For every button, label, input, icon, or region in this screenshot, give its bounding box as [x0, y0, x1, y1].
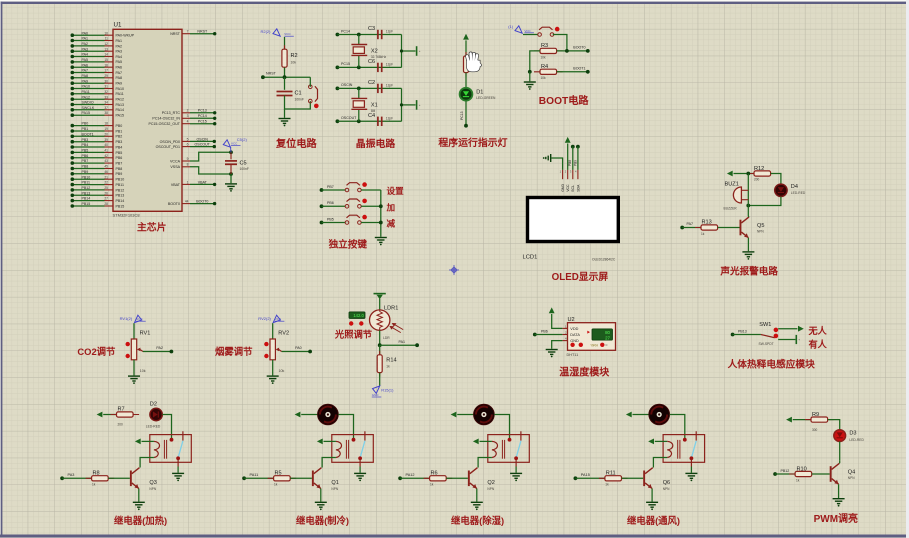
capacitor C4: [378, 117, 382, 126]
wire C1 to button: [285, 96, 311, 110]
relay contact NO stub: [695, 431, 697, 440]
svg-text:PB13: PB13: [738, 329, 747, 333]
relay armature (cyan): [691, 441, 696, 458]
pin BOOT0 (pin 44): [168, 200, 190, 207]
svg-text:SCL: SCL: [571, 185, 575, 192]
svg-text:PB9: PB9: [116, 172, 123, 176]
wire emitter to ground: [747, 238, 749, 252]
svg-text:PA10: PA10: [116, 87, 125, 91]
wire to common: [361, 189, 381, 191]
node OSCIN: [336, 87, 340, 91]
pin PA1 (pin 11): [71, 37, 123, 43]
wire to ground: [230, 174, 232, 183]
power net name: [231, 142, 241, 146]
node PB6: [320, 204, 324, 208]
junction: [379, 204, 383, 208]
svg-text:PA4: PA4: [116, 55, 123, 59]
svg-text:PA3: PA3: [116, 50, 123, 54]
pin VCCA (pin 9): [170, 157, 190, 164]
junction: [400, 49, 403, 52]
svg-text:25: 25: [104, 186, 108, 190]
svg-text:PA5: PA5: [116, 60, 123, 64]
OLED screen LCD1: [528, 198, 619, 242]
svg-text:PB5: PB5: [116, 151, 123, 155]
pin VDD (pin 1): [562, 327, 567, 329]
svg-text:PA11: PA11: [250, 473, 259, 477]
svg-text:1k: 1k: [92, 483, 96, 487]
svg-text:40: 40: [104, 143, 108, 147]
relay common contact: [352, 438, 356, 442]
pin PA10 (pin 31): [71, 85, 125, 91]
pin NRST (pin 7): [170, 30, 190, 37]
wire PC13: [190, 112, 215, 114]
svg-text:PA1: PA1: [116, 39, 123, 43]
LDR value display: [349, 312, 365, 319]
buzzer BUZ1: [733, 187, 748, 203]
wire coil top: [480, 440, 492, 442]
svg-text:继电器(制冷): 继电器(制冷): [296, 515, 349, 526]
LED D4: [775, 184, 787, 196]
svg-text:人体热释电感应模块: 人体热释电感应模块: [728, 357, 815, 370]
wire stub: [476, 467, 479, 469]
ground (emitter): [646, 502, 658, 507]
node PA15: [574, 476, 578, 480]
svg-text:PB0: PB0: [116, 124, 123, 128]
junction: [378, 343, 382, 347]
resistor R8: [86, 476, 115, 481]
svg-text:+: +: [419, 49, 421, 53]
svg-text:设置: 设置: [387, 185, 405, 196]
wire PB7: [322, 189, 346, 191]
svg-text:VCC: VCC: [566, 184, 570, 192]
node C5 bottom: [229, 172, 233, 176]
svg-text:37: 37: [104, 106, 108, 110]
wire BOOT1: [557, 71, 588, 73]
svg-text:PB7: PB7: [82, 159, 89, 163]
wire PA1: [380, 344, 417, 346]
svg-text:8M: 8M: [371, 109, 376, 113]
power net name: [136, 317, 146, 321]
wire to ground: [133, 360, 135, 376]
svg-text:OSCOUT: OSCOUT: [341, 116, 357, 120]
pin PA11 (pin 32): [71, 90, 124, 96]
svg-text:80: 80: [605, 330, 610, 335]
wire emitter to ground: [138, 489, 140, 502]
wire LDR to node: [379, 330, 381, 345]
svg-text:LED-RED: LED-RED: [791, 191, 806, 195]
wire PA3: [62, 477, 92, 479]
svg-text:STM32F103C8: STM32F103C8: [113, 213, 141, 218]
relay coil: [492, 441, 498, 457]
svg-text:(1): (1): [508, 24, 514, 29]
svg-text:3: 3: [187, 114, 189, 118]
svg-text:38: 38: [104, 111, 108, 115]
svg-text:BOOT1: BOOT1: [573, 67, 585, 71]
svg-text:PA13: PA13: [116, 103, 125, 107]
power arrow (OLED VCC): [565, 137, 571, 143]
svg-text:PA1: PA1: [399, 340, 406, 344]
svg-text:PB12: PB12: [781, 469, 790, 473]
wire OSCOUT: [337, 120, 401, 122]
svg-text:200: 200: [118, 423, 124, 427]
stub: [345, 205, 349, 207]
svg-text:VCC: VCC: [524, 29, 531, 33]
svg-text:Q6: Q6: [663, 480, 670, 486]
wire to ground: [515, 467, 517, 473]
svg-text:PA7: PA7: [82, 69, 89, 73]
svg-text:Q1: Q1: [331, 480, 338, 486]
svg-text:PA0: PA0: [295, 346, 302, 350]
adjust button +: [349, 321, 353, 325]
wire PB13: [733, 334, 761, 336]
resistor R10: [789, 471, 818, 476]
svg-text:PB5: PB5: [82, 149, 89, 153]
wire VCCA to C5 node: [190, 152, 231, 161]
pin PA3 (pin 13): [71, 47, 123, 53]
pin OSCOUT_PD1 (pin 6): [156, 143, 190, 150]
power arrow (no person): [798, 326, 804, 332]
svg-text:5: 5: [187, 137, 189, 141]
wire OSCIN: [337, 87, 401, 89]
power arrow (coil supply): [317, 439, 323, 445]
svg-text:PA15: PA15: [82, 111, 91, 115]
svg-text:R9: R9: [812, 412, 819, 418]
svg-text:22: 22: [104, 181, 108, 185]
wire to relay common: [338, 415, 353, 440]
svg-text:R10: R10: [797, 466, 807, 472]
svg-text:D1: D1: [476, 90, 483, 96]
svg-text:42: 42: [104, 154, 108, 158]
svg-text:PA5: PA5: [82, 58, 89, 62]
wire BOOT0: [190, 203, 215, 205]
pin PA15 (pin 38): [71, 111, 125, 117]
ground (RV1): [128, 376, 140, 381]
svg-text:1k: 1k: [796, 478, 800, 482]
svg-text:LED-RED: LED-RED: [146, 424, 161, 428]
svg-text:29: 29: [104, 74, 108, 78]
wire emitter to ground: [838, 484, 840, 498]
wire PA11: [244, 477, 274, 479]
resistor R1: [464, 52, 469, 77]
node PA0: [308, 350, 312, 354]
wire to base: [812, 473, 830, 475]
node PB5: [320, 221, 324, 225]
power terminal RV2(2): [273, 315, 280, 322]
node SDA: [576, 145, 580, 149]
potentiometer RV1: [131, 339, 143, 360]
wire R14 to terminal: [379, 373, 381, 386]
svg-text:D3: D3: [849, 431, 856, 437]
svg-text:PB12: PB12: [116, 188, 125, 192]
svg-text:R12: R12: [754, 166, 764, 172]
svg-text:BOOT0: BOOT0: [573, 46, 585, 50]
svg-text:PC15: PC15: [198, 120, 207, 124]
svg-text:PB9: PB9: [82, 170, 89, 174]
svg-text:NPN: NPN: [757, 230, 764, 234]
svg-text:PA12: PA12: [82, 95, 91, 99]
wire wedge to node: [230, 147, 233, 152]
wire coil bottom to collector: [140, 458, 154, 468]
ground (RV2): [267, 376, 279, 381]
svg-text:C3: C3: [368, 26, 375, 32]
wire to ground: [272, 360, 274, 376]
pin PC15-OSC32_OUT (pin 4): [148, 120, 190, 127]
power terminal (bar): [374, 293, 386, 295]
junction: [379, 221, 383, 225]
relay armature (cyan): [360, 441, 365, 458]
svg-text:X1: X1: [371, 102, 378, 108]
wire right rail: [401, 35, 403, 68]
svg-text:PC15: PC15: [341, 62, 350, 66]
stub: [345, 222, 349, 224]
svg-text:45: 45: [104, 165, 108, 169]
wire to R14: [379, 345, 381, 354]
svg-text:OSCIN: OSCIN: [341, 83, 353, 87]
power arrow (to VCC): [626, 412, 632, 418]
wire to ground: [284, 109, 286, 118]
power terminal R2(2): [273, 29, 280, 36]
svg-text:PB3: PB3: [116, 140, 123, 144]
wire to terminal: [778, 339, 795, 341]
capacitor C5: [225, 161, 237, 164]
svg-text:PB3: PB3: [82, 138, 89, 142]
svg-text:LCD1: LCD1: [523, 255, 538, 261]
LED D1 (green): [460, 88, 473, 101]
svg-text:BOOT电路: BOOT电路: [539, 94, 590, 107]
ground (buttons): [375, 238, 387, 243]
pin OSCIN_PD0 (pin 5): [160, 137, 190, 144]
resistor R12: [748, 171, 777, 176]
potentiometer RV2: [270, 339, 282, 360]
wire PA12: [400, 477, 430, 479]
svg-text:PA11: PA11: [116, 92, 124, 96]
svg-text:8: 8: [187, 163, 189, 167]
relay coil: [667, 441, 673, 457]
wire button to R3 right: [553, 35, 567, 51]
wire to base: [718, 227, 740, 229]
adjust button +: [126, 342, 130, 346]
relay RL (继电器(通风)): [663, 435, 705, 463]
svg-text:GND: GND: [372, 393, 380, 397]
svg-text:GND: GND: [570, 339, 579, 343]
wire to LDR: [379, 299, 381, 310]
node PB13: [731, 333, 735, 337]
svg-text:PB12: PB12: [82, 186, 91, 190]
resistor R3: [534, 48, 563, 53]
svg-text:加: 加: [386, 201, 396, 212]
button up: [570, 343, 574, 347]
power net name: [284, 32, 294, 36]
ground (emitter): [133, 502, 145, 507]
wire to ground: [177, 467, 179, 473]
relay moving contact: [690, 456, 694, 460]
svg-text:PA12: PA12: [406, 473, 415, 477]
switch SW1 lever: [761, 335, 775, 338]
svg-text:12pF: 12pF: [386, 62, 393, 66]
svg-text:Q4: Q4: [848, 469, 855, 475]
pin VSSA (pin 8): [170, 163, 190, 170]
resistor R14: [377, 351, 382, 377]
power arrow (LED supply): [463, 34, 469, 40]
wire R2 to NRST: [284, 68, 286, 78]
pin PB15 (pin 28): [71, 202, 125, 208]
relay core bars: [678, 440, 680, 459]
wire R12 to D4: [771, 174, 781, 185]
svg-text:VSSA: VSSA: [170, 165, 180, 169]
wire R9 to D3: [828, 420, 840, 430]
push button 减: [345, 215, 367, 225]
resistor R4: [534, 69, 563, 74]
svg-text:PB13: PB13: [116, 194, 125, 198]
relay moving contact: [176, 456, 180, 460]
svg-text:R2(2): R2(2): [260, 29, 271, 34]
relay pole stub: [690, 458, 692, 466]
svg-text:PB13: PB13: [82, 191, 91, 195]
svg-text:PB10: PB10: [116, 178, 125, 182]
relay pole stub: [177, 458, 179, 466]
svg-text:16: 16: [104, 63, 108, 67]
IC U1 STM32F103C8 body: [113, 29, 182, 211]
svg-text:%RH: %RH: [591, 343, 599, 347]
svg-text:C6: C6: [368, 59, 375, 65]
terminal arrow: [377, 295, 383, 300]
svg-text:VCC: VCC: [231, 142, 238, 146]
svg-text:GND: GND: [561, 184, 565, 192]
power arrow (PWM supply): [786, 417, 792, 423]
wire PC15: [337, 66, 401, 68]
node PC14: [336, 33, 340, 37]
svg-text:R14: R14: [386, 358, 396, 364]
wire PA2: [143, 351, 172, 353]
pin PC13_RTC (pin 2): [162, 109, 190, 116]
svg-text:PB15: PB15: [116, 204, 125, 208]
pin PB10 (pin 21): [71, 175, 125, 181]
ground (relay contact): [354, 473, 366, 478]
svg-text:PB7: PB7: [327, 185, 334, 189]
svg-text:R2: R2: [291, 53, 298, 59]
wire emitter to ground: [476, 489, 478, 502]
sheet border bottom: [0, 535, 909, 538]
svg-text:Q5: Q5: [757, 223, 764, 229]
node PB7: [320, 188, 324, 192]
svg-text:PB6: PB6: [116, 156, 123, 160]
push button 加: [345, 199, 367, 209]
svg-text:OLED显示屏: OLED显示屏: [552, 271, 609, 283]
svg-text:PA11: PA11: [82, 90, 90, 94]
svg-text:PB14: PB14: [82, 197, 91, 201]
origin marker (blue diamond): [449, 265, 459, 275]
pin PB3 (pin 39): [71, 138, 123, 144]
svg-text:32.768kHz: 32.768kHz: [371, 55, 387, 59]
svg-text:R11: R11: [606, 471, 616, 477]
motor/fan load: [649, 404, 670, 425]
svg-text:LED-RED: LED-RED: [849, 438, 864, 442]
pin GND (pin 1): [562, 170, 564, 179]
power arrow (to VCC): [295, 412, 301, 418]
svg-text:PC13_RTC: PC13_RTC: [162, 111, 181, 115]
pin PB0 (pin 18): [71, 122, 123, 128]
svg-text:PB1: PB1: [82, 127, 89, 131]
svg-text:C1: C1: [295, 91, 302, 97]
svg-text:41: 41: [104, 149, 108, 153]
svg-text:R6: R6: [431, 471, 438, 477]
relay coil: [154, 441, 160, 457]
node OSCOUT: [336, 119, 340, 123]
capacitor C6: [378, 63, 382, 72]
adjust button -: [264, 354, 268, 358]
light arrows: [390, 324, 403, 333]
node PC13: [213, 111, 216, 114]
node PB12: [773, 472, 777, 476]
wire to arrow: [778, 328, 797, 330]
button mode: [600, 343, 604, 347]
wire to button: [523, 34, 538, 36]
ground (C5): [225, 184, 237, 189]
relay common contact: [170, 438, 174, 442]
svg-text:无人: 无人: [808, 325, 828, 336]
adjust button -: [359, 321, 363, 325]
C5 bottom lead: [230, 164, 232, 174]
wire VCC to RV1: [133, 323, 135, 339]
pin SDA (pin 4): [577, 170, 579, 179]
wire: [103, 414, 116, 416]
wire right rail: [401, 88, 403, 121]
wire base: [108, 477, 130, 479]
svg-text:15: 15: [104, 58, 108, 62]
svg-text:BOOT0: BOOT0: [196, 200, 208, 204]
svg-text:主芯片: 主芯片: [137, 221, 167, 234]
svg-text:PA1: PA1: [82, 37, 89, 41]
wire GND pin: [552, 158, 563, 170]
svg-text:R13: R13: [702, 220, 712, 226]
wire collector: [838, 461, 841, 464]
junction: [565, 49, 569, 53]
relay pole stub: [515, 458, 517, 466]
node BOOT1: [586, 70, 590, 74]
svg-text:PB7: PB7: [116, 162, 123, 166]
wire VSSA to C5 bottom node: [190, 167, 231, 174]
wire to common: [361, 205, 381, 207]
svg-text:RV2: RV2: [278, 330, 289, 336]
svg-text:PB6: PB6: [327, 201, 334, 205]
svg-text:300: 300: [812, 428, 818, 432]
wire: [633, 414, 649, 416]
svg-text:VBAT: VBAT: [171, 183, 181, 187]
capacitor C2: [378, 84, 382, 93]
svg-text:RV2(2): RV2(2): [258, 316, 271, 321]
svg-text:程序运行指示灯: 程序运行指示灯: [438, 136, 507, 149]
svg-text:PB9: PB9: [573, 160, 577, 166]
svg-text:44: 44: [185, 200, 189, 204]
wire base: [290, 477, 312, 479]
svg-text:PA3: PA3: [82, 47, 89, 51]
pin PB2 (pin 20): [71, 132, 123, 138]
svg-text:PB8: PB8: [116, 167, 123, 171]
node PC13: [464, 124, 468, 128]
pin PA5 (pin 15): [71, 58, 123, 64]
LED D3: [834, 430, 846, 442]
svg-text:Q2: Q2: [487, 480, 494, 486]
wire coil bottom to collector: [478, 458, 492, 468]
wire stub: [320, 467, 323, 469]
wire R1 to D1: [465, 73, 467, 88]
svg-text:SW1: SW1: [759, 322, 771, 328]
svg-text:VBAT: VBAT: [198, 180, 208, 184]
junction: [528, 70, 532, 74]
svg-text:PA2: PA2: [116, 44, 123, 48]
svg-text:100nF: 100nF: [240, 167, 249, 171]
wire GND: [552, 341, 563, 349]
